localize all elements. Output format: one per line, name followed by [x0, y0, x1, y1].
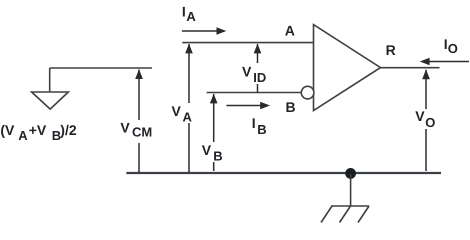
svg-text:B: B	[213, 149, 222, 164]
label IB	[252, 115, 267, 137]
svg-text:V: V	[242, 64, 252, 80]
svg-text:)/2: )/2	[60, 122, 77, 138]
wire: output node R	[381, 67, 440, 69]
label VO	[415, 108, 435, 130]
svg-text:+V: +V	[29, 122, 47, 138]
svg-text:B: B	[286, 99, 296, 115]
svg-text:V: V	[415, 108, 425, 124]
label node A	[285, 23, 295, 39]
svg-text:CM: CM	[132, 125, 152, 140]
label VID	[242, 64, 266, 85]
svg-text:V: V	[120, 119, 130, 135]
svg-text:O: O	[448, 41, 458, 56]
svg-text:I: I	[182, 3, 186, 19]
svg-text:A: A	[18, 128, 28, 143]
current arrow IO	[420, 58, 469, 66]
label (VA+VB)/2	[0, 122, 76, 143]
svg-text:V: V	[202, 142, 212, 158]
svg-text:R: R	[386, 42, 396, 58]
voltage arrow VO	[414, 69, 438, 171]
svg-text:I: I	[252, 115, 256, 131]
svg-text:A: A	[285, 23, 295, 39]
svg-text:V: V	[172, 103, 182, 119]
voltage arrow VB	[201, 94, 224, 171]
wire: common-mode reference wire	[50, 67, 152, 69]
op-amp U1 triangle	[314, 25, 381, 111]
label VB	[202, 142, 223, 164]
svg-text:O: O	[425, 115, 435, 130]
label node R	[386, 42, 396, 58]
label node B	[286, 99, 296, 115]
svg-text:A: A	[186, 9, 196, 24]
junction dot	[345, 168, 356, 179]
current arrow IA	[182, 27, 226, 35]
wire: node A top wire	[182, 42, 313, 44]
current arrow IB	[227, 102, 271, 110]
inversion bubble on B input	[301, 86, 314, 99]
svg-text:B: B	[257, 122, 266, 137]
wire: stub to open triangle	[49, 68, 51, 91]
wire: bottom common rail	[126, 172, 441, 174]
label VCM	[120, 119, 152, 139]
open triangle symbol (common-mode source)	[32, 92, 69, 109]
svg-text:A: A	[183, 110, 193, 125]
voltage arrow VCM	[119, 69, 155, 174]
label IO	[444, 36, 458, 56]
svg-text:ID: ID	[253, 70, 266, 85]
voltage arrow VA	[170, 44, 195, 174]
label VA	[172, 103, 193, 125]
wire: ground stem	[350, 174, 352, 206]
label IA	[182, 3, 197, 24]
voltage arrow VID (between A and B wires)	[240, 44, 269, 93]
ground symbol	[321, 206, 369, 223]
svg-text:(V: (V	[0, 122, 15, 138]
wire: node B wire	[207, 92, 302, 94]
